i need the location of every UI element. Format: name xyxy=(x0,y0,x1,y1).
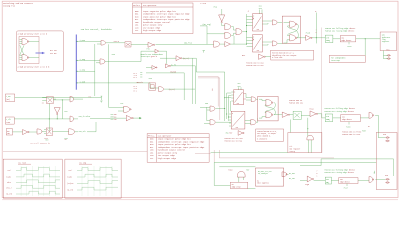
ground PU1 xyxy=(95,96,103,102)
buffer PU14 xyxy=(310,111,318,117)
buffer T5 xyxy=(225,42,231,47)
svg-text:(Hz): (Hz) xyxy=(6,99,10,101)
svg-text:74x: 74x xyxy=(236,127,239,129)
svg-text:Osc: Osc xyxy=(7,131,10,133)
box B4 NMI register xyxy=(288,133,322,153)
svg-text:PU: PU xyxy=(65,139,67,141)
connector pins 2 xyxy=(385,137,390,142)
triangle RST2 xyxy=(238,131,244,136)
gate D1 xyxy=(225,24,231,30)
svg-text:P CPU: P CPU xyxy=(201,3,206,5)
nets into B1 block xyxy=(214,162,376,188)
buffer PU11 xyxy=(306,35,312,40)
gate N_PX xyxy=(159,87,164,92)
maroon stubs xyxy=(214,150,334,162)
buffer osc xyxy=(23,130,30,135)
gate U3B xyxy=(290,35,297,41)
svg-text:PU14: PU14 xyxy=(310,108,314,110)
dome D2 xyxy=(237,171,245,177)
svg-text:GPU1/A: GPU1/A xyxy=(137,81,144,84)
title text xyxy=(3,2,34,8)
svg-text:i_osc: i_osc xyxy=(6,96,11,98)
svg-text:B1_STb: B1_STb xyxy=(68,190,74,192)
counter box CTR2 xyxy=(325,114,332,122)
svg-text:sw_t4s8sync: sw_t4s8sync xyxy=(258,173,268,175)
svg-text:CK4: CK4 xyxy=(238,86,241,88)
net i_IOW xyxy=(77,70,95,72)
U5 left pins xyxy=(229,114,231,126)
dome D1 xyxy=(307,135,313,140)
LED flag register box R1 xyxy=(380,32,397,51)
svg-text:flag: flag xyxy=(382,39,386,41)
svg-text:interrupt gate A: interrupt gate A xyxy=(141,55,158,58)
svg-text:(BU_PYL): (BU_PYL) xyxy=(184,43,192,45)
svg-text:PRI_/D valve: PRI_/D valve xyxy=(79,116,91,118)
jumper marks xyxy=(50,49,57,55)
svg-text:0 1: 0 1 xyxy=(134,90,137,92)
svg-text:PCB746 OE8 CK2: PCB746 OE8 CK2 xyxy=(289,103,303,105)
net i_IOR xyxy=(77,81,159,88)
svg-text:m_abc: m_abc xyxy=(68,177,73,179)
svg-text:high output edge: high output edge xyxy=(143,29,162,32)
dome D1 nets xyxy=(308,140,311,153)
svg-text:B1_OUT: B1_OUT xyxy=(289,173,295,175)
flip-flop U4 xyxy=(234,90,244,105)
buffer PYQR xyxy=(307,176,313,182)
maroon nets to FF cluster xyxy=(198,77,220,120)
svg-text:PU15: PU15 xyxy=(346,126,350,128)
net i_IRQ xyxy=(77,59,100,63)
svg-text:(Tx)a-0: (Tx)a-0 xyxy=(67,183,73,185)
net N_PX xyxy=(164,88,195,90)
net i_IRQ to PYB xyxy=(105,51,155,61)
svg-text:m_abc: m_abc xyxy=(7,176,12,178)
U6 cross wires xyxy=(259,99,275,118)
svg-text:PCB746 CK2 to ExA: PCB746 CK2 to ExA xyxy=(225,139,243,142)
inverter N_PY xyxy=(176,56,182,61)
net BU_PYQ xyxy=(200,26,225,44)
bus xyxy=(75,35,77,90)
CK2 edge detect box 2 xyxy=(341,115,361,122)
timing grid 2 xyxy=(82,166,112,196)
svg-text:PRI_4/D: PRI_4/D xyxy=(79,131,86,133)
svg-text:16M: 16M xyxy=(7,133,10,135)
ff latch small box xyxy=(125,42,131,47)
svg-text:4 bad priority over 9 to 0: 4 bad priority over 9 to 0 xyxy=(18,33,48,36)
nets gate A/B to latch box xyxy=(278,22,283,43)
svg-text:FREQ: FREQ xyxy=(326,40,330,42)
net A vertical xyxy=(315,13,317,44)
svg-text:edge detect: edge detect xyxy=(340,182,350,184)
mux box w X xyxy=(46,128,52,136)
svg-text:PCB746 CK2 rising edge detect: PCB746 CK2 rising edge detect xyxy=(325,111,354,113)
cluster nets xyxy=(220,14,253,47)
svg-text:CK2 output, 27 output: CK2 output, 27 output xyxy=(257,133,276,135)
gate E xyxy=(37,129,42,134)
svg-text:D: D xyxy=(253,36,254,38)
svg-text:PU18: PU18 xyxy=(228,170,232,172)
net FF1 to gate A xyxy=(262,21,272,45)
svg-text:high output edge: high output edge xyxy=(158,157,177,160)
svg-text:RST: RST xyxy=(46,139,49,141)
svg-text:(BU/W): (BU/W) xyxy=(170,72,176,74)
svg-text:interrupt: interrupt xyxy=(331,60,340,62)
svg-text:PCB746 CK2 rising edge detect: PCB746 CK2 rising edge detect xyxy=(325,172,354,174)
svg-text:CTR: CTR xyxy=(326,116,329,118)
svg-text:FF/D-L: FF/D-L xyxy=(133,4,141,7)
svg-text:(L_P): (L_P) xyxy=(171,65,176,67)
net mux out xyxy=(53,131,69,133)
net U3 out xyxy=(297,37,306,39)
gate D2 xyxy=(225,32,231,38)
svg-text:FIN: FIN xyxy=(383,134,386,136)
svg-text:CK2: CK2 xyxy=(342,37,345,39)
note box independent interrupt xyxy=(329,56,365,63)
CK2 edge detect box 1 xyxy=(340,36,356,42)
gate U6B xyxy=(266,112,273,118)
net bottom center xyxy=(211,152,288,154)
buffer out arrow xyxy=(126,115,133,121)
svg-text:PU10: PU10 xyxy=(306,32,310,34)
svg-text:CK2: CK2 xyxy=(238,83,241,85)
svg-text:3: 3 xyxy=(374,172,375,174)
ls05 box xyxy=(5,117,14,124)
svg-text:ISA bus control, handshake: ISA bus control, handshake xyxy=(81,28,113,31)
svg-text:PU9: PU9 xyxy=(214,7,217,9)
table 2: FF/D-L CLK operator xyxy=(147,134,209,162)
svg-text:FIN: FIN xyxy=(385,175,388,177)
svg-text:PU8: PU8 xyxy=(205,103,208,105)
inverted triangle PU2 xyxy=(54,108,60,115)
svg-text:10 01: 10 01 xyxy=(50,52,57,55)
U4 right pins xyxy=(244,94,247,100)
inverter L_PY xyxy=(165,64,170,68)
gate G3 xyxy=(251,97,256,102)
gate B xyxy=(272,41,277,46)
inverter PU9 (down) xyxy=(219,15,225,23)
big box B1 control xyxy=(255,168,283,186)
jumper stack 1 xyxy=(134,73,137,79)
svg-text:xx: xx xyxy=(42,103,44,105)
note box RST/x0 xyxy=(271,50,314,60)
net PU7 in xyxy=(109,44,124,111)
gate U1A xyxy=(22,39,29,45)
svg-text:CTR: CTR xyxy=(326,37,329,39)
flip-flop U2A xyxy=(253,14,263,31)
gate D xyxy=(69,129,75,135)
svg-text:edge clean: edge clean xyxy=(232,187,241,189)
net PU14 out xyxy=(318,114,326,118)
svg-text:PU: PU xyxy=(368,126,370,128)
counter box CTR3 xyxy=(325,177,331,184)
net U6 out xyxy=(274,114,282,116)
buffer triangle xyxy=(148,42,155,47)
svg-text:FRQ: FRQ xyxy=(326,182,329,184)
connector box R2 xyxy=(376,133,397,190)
svg-text:74x: 74x xyxy=(257,50,260,52)
svg-text:timing fix: timing fix xyxy=(3,4,16,7)
red vertical pin line xyxy=(211,89,213,91)
gate D3 xyxy=(236,29,242,35)
nets FF to G3 G4 xyxy=(245,94,258,124)
net gate D out xyxy=(75,122,96,132)
svg-text:FIN: FIN xyxy=(386,49,389,51)
svg-text:for independent: for independent xyxy=(331,57,345,59)
counter box CTR1 xyxy=(325,35,333,43)
net ls05 row xyxy=(14,104,70,132)
net osc out xyxy=(13,131,23,133)
svg-text:CK2: CK2 xyxy=(340,179,343,181)
svg-text:FREQ: FREQ xyxy=(326,119,330,121)
svg-text:c=0: c=0 xyxy=(114,119,117,121)
net gate C out xyxy=(73,117,126,120)
gate PU7 xyxy=(124,106,131,112)
svg-text:A line CK8: A line CK8 xyxy=(272,56,282,59)
flip-flop U2B xyxy=(253,35,263,52)
gate PU4a xyxy=(101,41,105,46)
svg-text:D: D xyxy=(253,15,254,17)
pin mark xyxy=(203,51,206,53)
svg-text:PU2: PU2 xyxy=(65,111,68,113)
net i_NRF xyxy=(77,40,101,44)
net osc row xyxy=(15,96,95,98)
svg-text:PCB746 CK2 rising edge detect: PCB746 CK2 rising edge detect xyxy=(325,31,354,33)
svg-text:LS05: LS05 xyxy=(6,122,10,124)
svg-text:PU6: PU6 xyxy=(149,78,152,80)
osc box xyxy=(6,129,12,135)
table 1 rows xyxy=(133,4,190,32)
svg-text:a=0: a=0 xyxy=(114,114,117,116)
svg-text:b=1: b=1 xyxy=(114,117,117,119)
svg-text:indicator: indicator xyxy=(382,37,391,39)
gate C0 xyxy=(70,96,73,102)
svg-text:PU7: PU7 xyxy=(121,103,124,105)
svg-text:B1_STb: B1_STb xyxy=(7,193,13,195)
gate row3 out xyxy=(369,177,374,183)
svg-text:register: register xyxy=(382,41,390,43)
svg-text:(P12_/: (P12_/ xyxy=(7,188,13,190)
jumper stack 2 xyxy=(134,86,137,92)
svg-text:CK2: CK2 xyxy=(342,116,345,118)
waveforms 1 xyxy=(16,168,60,194)
demo box wires xyxy=(20,40,40,60)
note box bottom CK xyxy=(256,129,284,141)
svg-text:74x: 74x xyxy=(237,103,240,105)
demo box: 4-bit priority encoder xyxy=(16,31,63,72)
mux box top xyxy=(47,97,54,104)
gate A xyxy=(272,20,277,25)
svg-text:4 bad priority over 9 to 0 b: 4 bad priority over 9 to 0 b xyxy=(18,66,50,69)
flip-flop U5 xyxy=(231,111,245,129)
gate U1B xyxy=(22,55,29,61)
svg-text:D: D xyxy=(234,91,235,93)
svg-text:PU5: PU5 xyxy=(112,54,115,56)
net PU9 out xyxy=(222,23,225,26)
CK2 edge detect box 3 xyxy=(339,178,358,184)
svg-text:0: 0 xyxy=(316,32,317,34)
blue arrow xyxy=(36,52,45,54)
svg-text:CLK operator: CLK operator xyxy=(143,4,157,7)
svg-text:edge detect: edge detect xyxy=(342,119,352,121)
nets G1 G2 xyxy=(200,93,231,124)
net xbox to PU14 xyxy=(290,116,310,137)
svg-text:ab-0: ab-0 xyxy=(7,182,11,184)
net into pins xyxy=(383,51,387,59)
timing box 2 xyxy=(65,159,121,198)
svg-text:RST: RST xyxy=(229,132,232,134)
U4 left pins xyxy=(231,92,233,101)
svg-text:PCB746 CK8 to CK2: PCB746 CK8 to CK2 xyxy=(246,65,263,67)
svg-text:FDET: FDET xyxy=(362,130,366,132)
table 2 rows xyxy=(148,135,205,160)
net row1 xyxy=(312,38,380,39)
latch cross wires xyxy=(284,22,299,43)
net mux top xyxy=(42,98,70,119)
net PU9 in xyxy=(221,9,223,15)
svg-text:B1: B1 xyxy=(257,180,259,182)
connector pins 1 xyxy=(386,54,391,59)
gate U6A xyxy=(266,100,273,106)
inverter PU5b xyxy=(155,49,159,53)
svg-text:D: D xyxy=(232,113,233,115)
svg-text:0 1: 0 1 xyxy=(134,77,137,79)
gate C xyxy=(70,116,73,122)
vertical net to ground xyxy=(94,44,96,96)
svg-text:7: 7 xyxy=(316,30,317,32)
svg-text:edge detect: edge detect xyxy=(342,40,352,42)
clk box xyxy=(5,94,14,102)
buffer RST xyxy=(259,54,266,59)
net to gate E xyxy=(29,131,37,133)
svg-text:when clocked B,: when clocked B, xyxy=(257,135,271,137)
svg-text:PYQR: PYQR xyxy=(305,184,309,186)
bottom right nets xyxy=(300,159,394,181)
svg-text:B1_CNTL_PLT_CLK: B1_CNTL_PLT_CLK xyxy=(258,171,272,173)
svg-text:PU17: PU17 xyxy=(344,187,348,189)
timing box 1 xyxy=(3,159,62,198)
svg-text:B clocked 0: B clocked 0 xyxy=(257,139,267,141)
edge clean box B1 xyxy=(230,182,247,189)
net to mux xyxy=(42,130,46,134)
gate U3A xyxy=(290,21,297,27)
svg-text:t/=: t/= xyxy=(290,146,293,148)
svg-text:LED: LED xyxy=(382,35,385,37)
svg-text:PCB746 OE8 in rear: PCB746 OE8 in rear xyxy=(342,134,360,136)
gate D4 xyxy=(214,41,220,47)
nets into FF1 top xyxy=(260,10,262,14)
timing labels 1 xyxy=(7,169,13,196)
gate G1 xyxy=(210,106,215,111)
svg-text:RST: RST xyxy=(246,170,249,172)
table 1: FF/D-L CLK operator xyxy=(133,3,194,34)
net out arrow xyxy=(133,117,141,119)
net L_PY xyxy=(171,66,196,104)
svg-text:PYB: PYB xyxy=(147,49,150,51)
svg-text:i_clk: i_clk xyxy=(6,119,11,121)
gate PU5a xyxy=(100,59,105,64)
net RST to note xyxy=(265,56,271,58)
SR latch box U3 xyxy=(282,16,301,43)
net row2 xyxy=(333,115,386,137)
gate G4 xyxy=(251,120,256,125)
timing grid 1 xyxy=(21,166,55,196)
svg-text:74x: 74x xyxy=(257,29,260,31)
net after PU4a xyxy=(106,43,214,45)
gate row2 out xyxy=(369,112,374,118)
tick pair xyxy=(140,73,142,77)
inverter T2 xyxy=(152,66,157,70)
svg-text:PCB746 bottom CK to 3,: PCB746 bottom CK to 3, xyxy=(257,131,277,133)
jumper stack 3 xyxy=(114,114,117,121)
net TR1 to xbox xyxy=(290,114,294,116)
SR latch box U6 xyxy=(258,96,278,121)
junction dots on bus xyxy=(77,41,78,84)
connector pins 3 xyxy=(385,178,390,183)
long vertical net xyxy=(321,28,323,153)
gate on B1 box xyxy=(282,172,287,177)
long maroon net bottom xyxy=(3,151,211,153)
svg-text:CTR: CTR xyxy=(326,179,329,181)
svg-text:CK4: CK4 xyxy=(259,8,262,10)
latch box PU6 xyxy=(149,83,156,90)
net N_PY xyxy=(160,58,196,104)
gate G2 xyxy=(210,120,215,125)
svg-text:(BU_PYQ): (BU_PYQ) xyxy=(203,24,212,26)
svg-text:B1: B1 xyxy=(232,184,234,186)
waveforms 2 xyxy=(77,168,118,190)
net dome D2 xyxy=(239,177,244,182)
svg-text:PU12: PU12 xyxy=(348,46,352,48)
timing labels 2 xyxy=(67,169,73,192)
pin numbers xyxy=(317,171,318,178)
nets into FF T xyxy=(239,87,241,90)
svg-text:B1_SEL: B1_SEL xyxy=(289,178,295,180)
buffer TR1 xyxy=(282,112,289,117)
green box X xyxy=(293,111,301,119)
